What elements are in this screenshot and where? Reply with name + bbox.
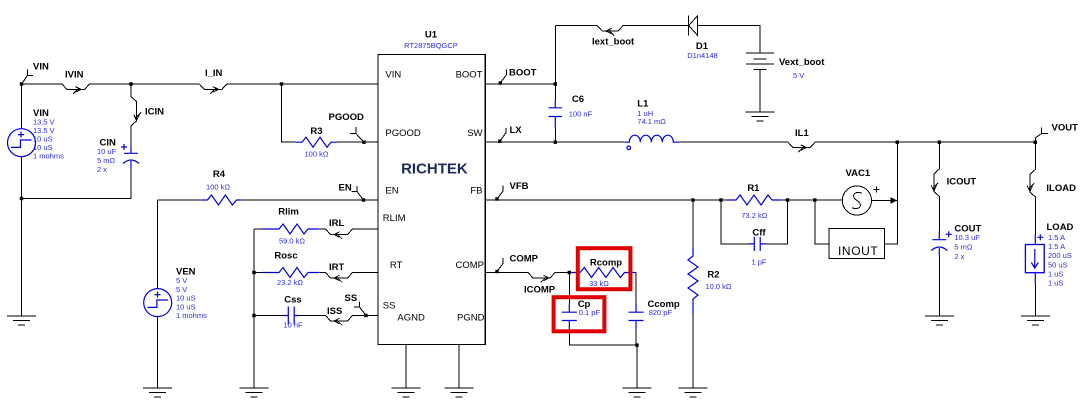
resistor R3 [296, 137, 337, 147]
node VOUT tick [1035, 122, 1078, 142]
svg-text:73.2 kΩ: 73.2 kΩ [741, 211, 767, 220]
junction dot VOUT [1034, 141, 1037, 144]
ground (PGND, x=459 y=388) [445, 388, 474, 397]
wire bottom return rail (VIN- to CIN-) [22, 168, 132, 199]
svg-text:VAC1: VAC1 [846, 168, 871, 179]
capacitor Ccomp (x=636) [629, 304, 644, 330]
junction dot VOUT riser top [896, 141, 899, 144]
resistor R2 (vertical divider) [688, 248, 698, 314]
probe ICOMP arrow [541, 275, 549, 282]
wire COUT branch (x=939.3) with ICOUT probe dip [934, 142, 940, 231]
svg-text:1 mohms: 1 mohms [176, 311, 207, 320]
svg-text:100 nF: 100 nF [569, 110, 593, 119]
node VFB tick [497, 181, 529, 199]
svg-text:C6: C6 [572, 94, 584, 105]
wire VEN branch (x=157.7) [157, 200, 159, 388]
svg-text:820 pF: 820 pF [649, 308, 673, 317]
junction dot comp bottom [635, 343, 638, 346]
ground (Ccomp, x=637 y=388) [623, 388, 652, 397]
node BOOT tick [500, 68, 536, 84]
svg-text:1 mohms: 1 mohms [33, 152, 64, 161]
probe ISS arrow (pointing left) [334, 318, 342, 325]
svg-text:AGND: AGND [397, 312, 425, 323]
probe Iext_boot arrow (pointing left) [606, 28, 614, 35]
svg-text:1.5 A: 1.5 A [1048, 242, 1065, 251]
wire left passive column (x=254 down to ground) [253, 229, 255, 388]
svg-text:1 pF: 1 pF [751, 258, 766, 267]
resistor R4 [202, 195, 242, 205]
svg-text:23.2 kΩ: 23.2 kΩ [277, 278, 303, 287]
svg-text:R3: R3 [310, 126, 322, 137]
junction dot VFB tick [495, 197, 498, 200]
junction dot EN tick [362, 198, 365, 201]
node VIN (input net label tick) [22, 62, 49, 85]
probe I_IN arrow [210, 87, 218, 94]
probe IRL arrow (pointing left) [334, 232, 342, 239]
wire RLIM row (y=229) with IRL probe dip [254, 229, 378, 235]
svg-text:ILOAD: ILOAD [1046, 183, 1076, 194]
wire SW/LX rail to VOUT (y=142.2) with IL1 probe dip [485, 142, 1035, 148]
arrowhead VAC1 output into VOUT riser [891, 197, 898, 203]
capacitor COUT (polarized, x=939.3) [931, 231, 951, 255]
svg-text:IRT: IRT [329, 262, 345, 273]
junction dot VAC1 left [813, 198, 816, 201]
junction dot BOOT tick [499, 81, 502, 84]
wire VAC1 right to VOUT riser (x=897.3) [872, 142, 898, 244]
junction dot COMP node [568, 271, 571, 274]
svg-text:RT: RT [390, 260, 403, 271]
svg-text:EN: EN [339, 182, 352, 193]
wire PGOOD row (R3 to PGOOD pin, y=142.2) [337, 141, 378, 143]
junction dot C6 bottom [554, 141, 557, 144]
svg-text:Cff: Cff [752, 227, 766, 238]
probe ICIN arrow [134, 112, 141, 120]
resistor R1 [727, 195, 781, 205]
wire COUT to ground [938, 255, 940, 316]
wire VAC1 branch / INOUT left riser (x=814.8) [815, 200, 829, 244]
diode D1 [689, 16, 698, 36]
svg-text:COMP: COMP [456, 260, 485, 271]
svg-text:PGND: PGND [457, 312, 485, 323]
svg-text:10 nF: 10 nF [283, 321, 303, 330]
svg-text:BOOT: BOOT [509, 68, 537, 79]
wire VIN rail (top input rail y=84) with IVIN / I_IN probe dips [22, 84, 379, 90]
op-amp INOUT (loop-gain probe block) [829, 229, 885, 259]
capacitor CIN (polarized, x=131) [121, 144, 139, 168]
svg-text:LOAD: LOAD [1047, 222, 1074, 233]
svg-text:10.3 uF: 10.3 uF [954, 233, 980, 242]
svg-text:2 x: 2 x [954, 252, 964, 261]
ground (LOAD, x=1035.3 y=316) [1021, 316, 1050, 325]
svg-text:RT2875BQGCP: RT2875BQGCP [404, 41, 458, 50]
svg-text:Css: Css [284, 294, 301, 305]
svg-text:33 kΩ: 33 kΩ [589, 279, 609, 288]
wire AGND stub [405, 345, 407, 388]
label LOAD values [1047, 222, 1074, 287]
svg-text:0.1 pF: 0.1 pF [579, 308, 601, 317]
svg-text:R1: R1 [747, 183, 760, 194]
svg-text:ICIN: ICIN [145, 106, 164, 117]
wire R2 column (x=693) [692, 200, 694, 388]
svg-text:100 kΩ: 100 kΩ [206, 183, 230, 192]
highlight box Rcomp (red) [578, 248, 631, 289]
svg-text:IRL: IRL [329, 218, 345, 229]
wire FB row (y=200) chip to VAC1 [485, 199, 842, 201]
wire EN row (VEN through R4 to EN pin, y=200) [158, 199, 378, 201]
svg-text:1 uS: 1 uS [1048, 269, 1063, 278]
svg-text:1.5 A: 1.5 A [1048, 233, 1065, 242]
svg-text:COMP: COMP [510, 254, 539, 265]
svg-text:Rlim: Rlim [278, 207, 299, 218]
wire RT row (y=272.5) with IRT probe dip [254, 273, 378, 279]
junction dot Css tap [252, 314, 255, 317]
svg-text:SW: SW [467, 128, 482, 139]
junction dot boot node [554, 82, 557, 85]
ground (VIN source, x=21.5 y=316) [7, 316, 36, 325]
svg-text:FB: FB [470, 185, 482, 196]
svg-text:Vext_boot: Vext_boot [779, 57, 825, 68]
junction dot COMP tick [495, 270, 498, 273]
capacitor Css [283, 307, 300, 325]
svg-text:5 V: 5 V [176, 285, 187, 294]
label VIN source values [33, 108, 64, 161]
wire external boot top rail (y=25.6) with Iext_boot probe dip [555, 26, 760, 53]
svg-text:10 uF: 10 uF [97, 147, 117, 156]
svg-text:50 uS: 50 uS [1048, 260, 1068, 269]
node EN tick [339, 182, 364, 200]
wire SS row (y=315.5) with ISS probe dip [254, 316, 378, 322]
svg-text:IVIN: IVIN [65, 69, 84, 80]
highlight box Cp (red) [554, 297, 605, 331]
svg-text:PGOOD: PGOOD [329, 112, 365, 123]
svg-text:5 mΩ: 5 mΩ [97, 156, 116, 165]
svg-text:D1n4148: D1n4148 [687, 51, 717, 60]
current source LOAD (box with arrow) [1025, 234, 1044, 285]
capacitor C6 [549, 99, 563, 128]
wire VIN source branch (left column x=21.5) [21, 84, 23, 316]
svg-text:VIN: VIN [33, 62, 49, 73]
probe ICOUT arrow (pointing down) [931, 183, 938, 191]
svg-text:R4: R4 [213, 169, 226, 180]
label CIN values [97, 138, 117, 174]
junction dot R2 top [691, 198, 694, 201]
label VEN values [176, 267, 207, 321]
resistor Rosc [263, 268, 320, 278]
battery Vext_boot [746, 53, 774, 112]
wire LOAD branch (x=1035.3) with ILOAD probe dip [1030, 142, 1036, 234]
svg-text:200 uS: 200 uS [1048, 251, 1072, 260]
wire boot riser (x=555.3 from top rail through C6 to SW rail) [554, 26, 556, 143]
svg-text:RLIM: RLIM [383, 213, 406, 224]
svg-text:EN: EN [385, 185, 398, 196]
probe IRT arrow (pointing left) [334, 275, 342, 282]
svg-text:ICOMP: ICOMP [524, 285, 556, 296]
svg-text:Iext_boot: Iext_boot [592, 36, 635, 47]
junction dot SS tick [364, 314, 367, 317]
wire CIN branch with ICIN probe dip (x=131) [131, 84, 137, 147]
svg-text:VOUT: VOUT [1052, 122, 1079, 133]
svg-text:INOUT: INOUT [838, 244, 878, 258]
svg-text:5 V: 5 V [176, 276, 187, 285]
voltage source VAC1 (AC perturbation source) [842, 186, 879, 215]
node LX tick [500, 125, 523, 141]
voltage source VIN (step source circle) [8, 129, 36, 157]
node COMP tick [497, 254, 539, 272]
wire COMP row (y=272.5) with ICOMP probe dip [485, 273, 569, 279]
svg-text:Rcomp: Rcomp [590, 257, 622, 268]
probe ILOAD arrow (pointing down) [1027, 183, 1034, 191]
ground (COUT, x=939.3 y=316) [925, 316, 954, 325]
voltage source VEN (step source circle) [144, 289, 172, 317]
svg-text:Rosc: Rosc [274, 250, 297, 261]
node SS tick [345, 293, 367, 316]
svg-text:1 uS: 1 uS [1048, 279, 1063, 288]
svg-text:BOOT: BOOT [456, 70, 483, 81]
op-amp U1 (RT2875BQGCP regulator IC body) [378, 54, 485, 344]
svg-text:L1: L1 [637, 99, 649, 110]
svg-text:2 x: 2 x [97, 165, 107, 174]
svg-text:5 mΩ: 5 mΩ [954, 243, 973, 252]
wire PGND stub [458, 345, 460, 388]
svg-text:ICOUT: ICOUT [947, 176, 977, 187]
junction dot Rosc tap [252, 271, 255, 274]
svg-text:74.1 mΩ: 74.1 mΩ [637, 117, 666, 126]
wire comp bottom rail (y=345.1) [569, 329, 637, 388]
junction dot COUT top [938, 141, 941, 144]
svg-text:VIN: VIN [385, 70, 401, 81]
svg-text:IL1: IL1 [795, 128, 809, 139]
svg-text:U1: U1 [425, 30, 438, 41]
svg-text:5 V: 5 V [793, 71, 804, 80]
wire BOOT pin to boot node [485, 83, 555, 85]
ground (AGND, x=406 y=388) [392, 388, 421, 397]
ground (Vext_boot, x=760 y=112) [746, 112, 775, 121]
node PGOOD tick [329, 112, 365, 142]
svg-text:100 kΩ: 100 kΩ [305, 150, 329, 159]
junction dots on VIN rail [20, 82, 23, 85]
ground (passive column, x=254 y=388) [240, 388, 269, 397]
svg-text:SS: SS [345, 293, 358, 304]
capacitor Cff [749, 237, 767, 251]
svg-text:PGOOD: PGOOD [385, 128, 421, 139]
svg-text:10 uS: 10 uS [176, 294, 196, 303]
svg-text:VFB: VFB [510, 181, 529, 192]
svg-text:ISS: ISS [327, 306, 342, 317]
junction dot Cff left [719, 198, 722, 201]
svg-text:10 uS: 10 uS [176, 302, 196, 311]
probe IL1 arrow [798, 145, 806, 152]
inductor L1 [624, 135, 679, 149]
wire R3 riser (x=281.5 from VIN rail down to PGOOD row) [282, 84, 297, 142]
svg-text:I_IN: I_IN [205, 68, 223, 79]
svg-text:LX: LX [510, 125, 523, 136]
svg-text:59.0 kΩ: 59.0 kΩ [279, 237, 305, 246]
wire Ccomp riser (Rcomp right down to Ccomp) [635, 273, 637, 304]
resistor Rcomp [569, 268, 636, 278]
probe IVIN arrow [73, 87, 81, 94]
capacitor Cp (x=569.3) [562, 273, 577, 330]
ground (VEN, x=157.7 y=388) [143, 388, 172, 397]
svg-text:R2: R2 [707, 270, 719, 281]
svg-text:10.0 kΩ: 10.0 kΩ [706, 282, 732, 291]
junction dot LX tick [498, 140, 501, 143]
svg-text:SS: SS [383, 300, 396, 311]
junction dot Cff right [786, 198, 789, 201]
junction dot PGOOD tick [362, 141, 365, 144]
wire Cff branch (parallel with R1) [721, 200, 788, 244]
ground (R2, x=693 y=388) [679, 388, 708, 397]
wire LOAD to ground [1034, 285, 1036, 316]
svg-text:RICHTEK: RICHTEK [401, 161, 468, 178]
resistor Rlim [263, 224, 320, 234]
label COUT values [954, 224, 981, 262]
